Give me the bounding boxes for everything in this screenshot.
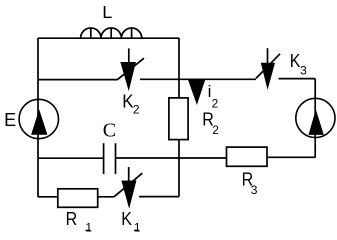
- svg-text:3: 3: [251, 183, 258, 197]
- resistor R3: [227, 147, 268, 166]
- svg-text:K: K: [122, 92, 133, 112]
- wire row B left (to K2): [38, 79, 117, 81]
- wire row B middle (K2 to K3): [140, 78, 256, 80]
- switch K2: [117, 48, 144, 88]
- switch K3: [256, 48, 280, 87]
- switch K1: [114, 167, 142, 206]
- wire row D right (K1 to mid vertical): [139, 196, 179, 198]
- wire mid vertical (top wire down to R2): [178, 38, 180, 98]
- wire row D middle (R1 to K1): [98, 196, 114, 198]
- svg-text:1: 1: [134, 221, 141, 234]
- svg-text:1: 1: [85, 221, 92, 234]
- wire right vertical top (into right source): [314, 79, 316, 99]
- svg-text:2: 2: [212, 97, 219, 111]
- inductor L: [81, 28, 142, 38]
- svg-text:K: K: [121, 209, 132, 229]
- wire row C left (to capacitor): [38, 157, 104, 159]
- wire row D left (to R1): [38, 196, 58, 198]
- current source (right, unlabeled): [296, 98, 335, 137]
- svg-text:C: C: [103, 120, 116, 142]
- EMF source E: [19, 99, 58, 138]
- svg-text:2: 2: [212, 123, 219, 137]
- resistor R1: [58, 189, 98, 208]
- wire row B right (K3 to right corner): [279, 78, 316, 80]
- wire mid vertical (R2 bottom to row D): [178, 140, 180, 197]
- resistor R2: [169, 98, 188, 140]
- wire right vertical bottom (source to row C): [314, 137, 316, 158]
- wire left vertical: [37, 38, 39, 197]
- svg-text:K: K: [290, 51, 301, 71]
- current arrow i2: [188, 79, 205, 104]
- wire top (row A): [38, 37, 179, 39]
- capacitor C: [104, 143, 116, 174]
- svg-text:3: 3: [300, 64, 307, 78]
- svg-text:E: E: [4, 110, 16, 130]
- svg-text:L: L: [102, 2, 112, 22]
- svg-text:2: 2: [133, 103, 140, 117]
- wire row C middle (capacitor to R3): [116, 157, 227, 159]
- wire row C right (R3 to right vertical): [267, 156, 315, 158]
- svg-text:R: R: [66, 209, 78, 229]
